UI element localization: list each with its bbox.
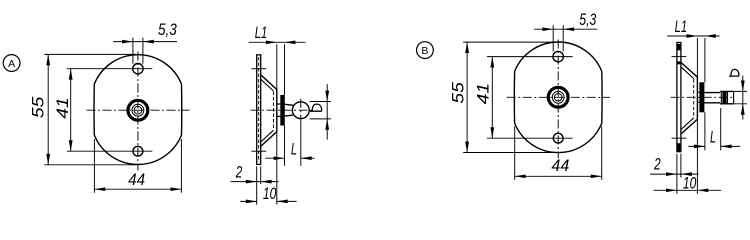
head cylinder B xyxy=(720,91,734,103)
dimension D B xyxy=(729,69,747,119)
hole tick top A xyxy=(251,68,266,70)
dimension 55 B xyxy=(449,42,557,152)
shaft through cone face A xyxy=(277,104,281,116)
screw hole bottom B xyxy=(553,133,563,143)
svg-text:L1: L1 xyxy=(675,17,688,36)
section fill bottom B xyxy=(677,143,680,151)
svg-text:41: 41 xyxy=(474,83,493,105)
dimension 41 B xyxy=(474,57,573,139)
hole tick bottom B xyxy=(672,137,687,139)
svg-text:10: 10 xyxy=(263,184,277,203)
cone hidden back face B xyxy=(693,79,695,117)
dimension 5,3 B xyxy=(534,10,597,52)
dimension 41 A xyxy=(53,69,152,152)
dimension 5,3 A xyxy=(113,20,177,64)
cone boss A xyxy=(261,75,277,147)
collar bar B xyxy=(699,82,704,112)
svg-text:5,3: 5,3 xyxy=(579,10,596,29)
cone boss B xyxy=(681,62,698,134)
dimension 2 B xyxy=(650,154,698,194)
variant label B xyxy=(417,42,434,59)
dimension L1 A xyxy=(249,23,306,205)
svg-text:L: L xyxy=(710,128,716,147)
dimension 44 A xyxy=(94,139,181,193)
dimension 10 B xyxy=(654,173,722,192)
vertical centerline B xyxy=(557,40,559,159)
cone hidden back face A xyxy=(273,92,275,130)
svg-text:B: B xyxy=(421,45,428,57)
side horizontal centerline A xyxy=(251,109,312,111)
svg-text:55: 55 xyxy=(449,82,468,104)
screw hole top A xyxy=(133,63,143,73)
svg-text:A: A xyxy=(8,58,15,70)
svg-text:2: 2 xyxy=(653,155,661,174)
svg-text:55: 55 xyxy=(29,96,48,118)
neck A xyxy=(285,104,293,116)
dimension 55 A xyxy=(29,54,136,164)
center hole rings B xyxy=(548,87,568,107)
cone inner wall A xyxy=(261,79,274,142)
stem B xyxy=(704,93,720,103)
svg-text:2: 2 xyxy=(235,163,243,182)
dimension 44 B xyxy=(515,127,602,180)
screw hole top B xyxy=(553,51,563,61)
side horizontal centerline B xyxy=(671,96,735,98)
svg-text:41: 41 xyxy=(53,97,72,119)
section fill top B xyxy=(677,44,680,50)
center hole rings A xyxy=(128,100,148,120)
svg-text:L: L xyxy=(291,140,297,159)
svg-text:5,3: 5,3 xyxy=(158,20,177,39)
shaft through cone face B xyxy=(697,92,699,102)
dimension L A xyxy=(265,140,314,161)
variant label A xyxy=(3,55,20,72)
dimension D A xyxy=(310,84,331,139)
dimension L B xyxy=(688,108,740,150)
hole tick bottom A xyxy=(251,150,266,152)
vertical centerline A xyxy=(137,52,139,171)
hole tick top B xyxy=(672,56,687,58)
svg-text:44: 44 xyxy=(128,170,145,189)
dimension 2 A xyxy=(231,163,279,205)
svg-text:L1: L1 xyxy=(255,23,268,42)
plate outline A xyxy=(94,55,182,165)
plate section A xyxy=(257,55,261,165)
cone inner wall B xyxy=(681,67,694,130)
hidden hole line in plate A xyxy=(258,57,260,162)
screw hole bottom A xyxy=(133,146,143,156)
svg-text:10: 10 xyxy=(683,173,697,192)
collar bar A xyxy=(280,95,285,126)
dimension L1 B xyxy=(667,17,719,194)
plate section B xyxy=(677,43,681,152)
dimension 10 A xyxy=(240,184,296,203)
svg-text:44: 44 xyxy=(551,156,569,175)
plate outline B xyxy=(514,42,602,153)
ball knob A xyxy=(292,102,309,119)
horizontal centerline A xyxy=(87,109,190,111)
horizontal centerline B xyxy=(507,96,610,98)
ball vertical centerline A xyxy=(300,99,302,123)
